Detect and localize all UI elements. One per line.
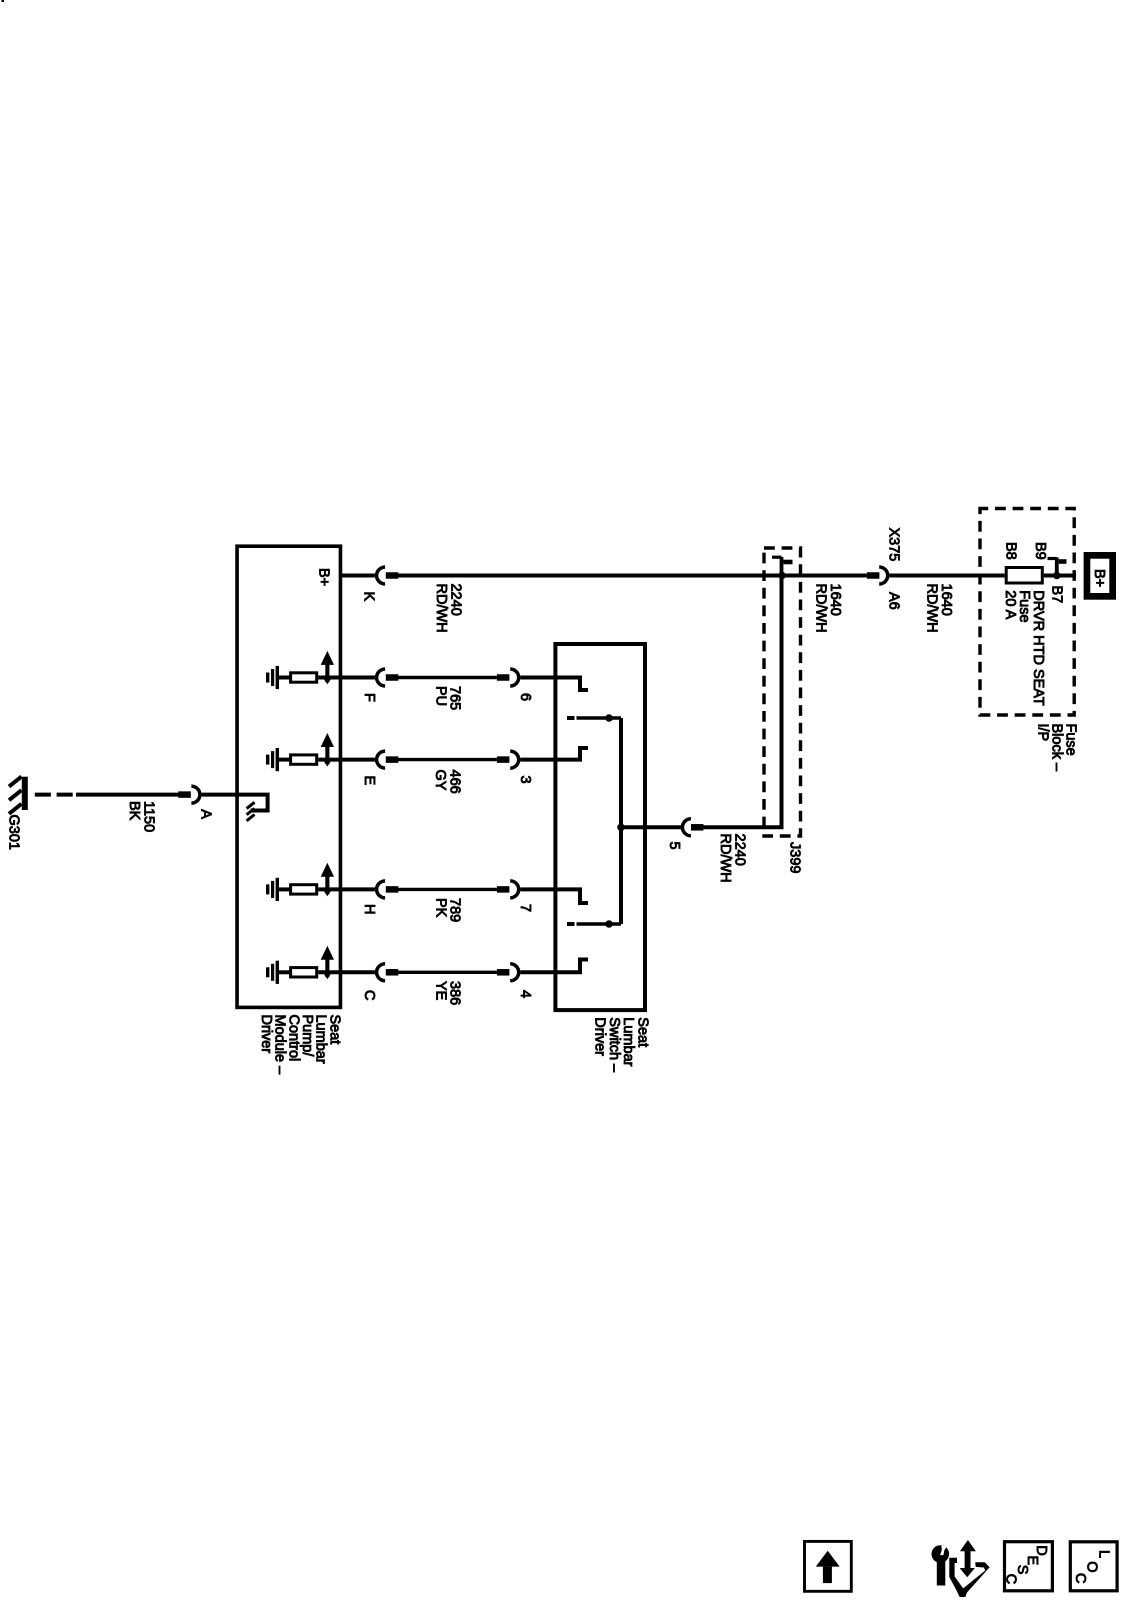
connector 4 male pin stub — [497, 969, 510, 976]
pump motor row H — [266, 863, 341, 901]
connector F male pin stub — [386, 674, 399, 681]
wire connector 7 to switch — [520, 887, 557, 891]
connector E female arc — [377, 751, 386, 768]
svg-text:6: 6 — [517, 693, 533, 701]
svg-text:BK: BK — [126, 801, 142, 821]
label E — [361, 776, 377, 786]
label K — [360, 592, 376, 602]
label 1640 RD/WH right of X375 — [924, 584, 955, 633]
connector C female arc — [377, 964, 386, 981]
switch pin 6 internal wire and contact — [557, 676, 588, 691]
connector 7 female arc — [510, 881, 519, 898]
connector 5 female arc — [682, 819, 691, 836]
footer icon: LOC box — [1070, 1542, 1117, 1591]
connector 5 male pin stub — [691, 824, 704, 831]
junction dot arm 1 — [605, 714, 613, 722]
wire 2240 RD/WH main feed to X375 — [398, 574, 867, 578]
wire row F module to connector — [342, 676, 375, 680]
wire 1150 BK dashed segment from G301 — [35, 793, 77, 797]
svg-text:3: 3 — [517, 776, 533, 784]
switch wiper arm 1 — [567, 716, 575, 720]
svg-text:X375: X375 — [886, 528, 902, 562]
svg-text:PK: PK — [433, 898, 449, 918]
junction dot pin 5 — [617, 824, 625, 832]
svg-text:L: L — [1096, 1550, 1112, 1558]
connector C male pin stub — [386, 969, 399, 976]
svg-text:K: K — [360, 592, 376, 602]
label A6 — [886, 592, 902, 610]
label 1640 RD/WH left of X375 — [813, 584, 844, 633]
footer icon: DESC box — [1003, 1542, 1053, 1591]
module internal ground hatches — [247, 802, 255, 821]
label 789 PK — [433, 898, 463, 922]
label 466 GY — [432, 770, 463, 794]
label Seat Lumbar Switch - Driver — [592, 1017, 651, 1073]
scan artifact top-left corner — [2, 0, 5, 2]
wire 2240 RD/WH to J399 — [703, 576, 782, 828]
label DRVR HTD SEAT Fuse 20 A — [1002, 590, 1046, 706]
Seat Lumbar Switch box — [555, 644, 645, 1010]
wire fuse to B+ terminal — [1044, 574, 1076, 578]
connector F female arc — [377, 669, 386, 686]
connector H male pin stub — [386, 886, 399, 893]
connector A female arc — [191, 786, 200, 803]
label B+ inside module — [315, 568, 331, 586]
connector H female arc — [377, 881, 386, 898]
switch pin 7 internal wire and contact — [557, 887, 588, 903]
switch pin 3 internal wire and contact — [557, 748, 588, 762]
label 386 YE — [433, 981, 463, 1005]
junction dot J399 — [778, 572, 786, 580]
svg-text:F: F — [361, 693, 377, 702]
wire 386 YE — [398, 971, 497, 974]
wire B+ module to connector K — [342, 574, 375, 578]
label Fuse Block - I/P — [1035, 724, 1079, 772]
label 2240 RD/WH — [433, 584, 464, 633]
footer icon: wrench with arrows (service) — [932, 1540, 990, 1597]
connector K female arc — [377, 567, 386, 584]
wire row H module to connector — [342, 887, 375, 891]
svg-text:GY: GY — [432, 770, 448, 791]
junction dot arm 2 — [605, 920, 613, 928]
svg-text:4: 4 — [517, 990, 533, 998]
connector 4 female arc — [510, 964, 519, 981]
label B+ terminal — [1091, 569, 1107, 587]
wire connector 6 to switch — [520, 676, 557, 680]
svg-text:E: E — [361, 776, 377, 786]
svg-text:PU: PU — [433, 686, 449, 706]
label C — [361, 990, 377, 1000]
connector 3 female arc — [510, 751, 519, 768]
wire row E module to connector — [342, 758, 375, 762]
svg-text:G301: G301 — [6, 815, 22, 850]
J399 splice dashed box — [764, 548, 801, 836]
wire connector 4 to switch — [520, 970, 557, 974]
svg-text:B7: B7 — [1049, 586, 1065, 604]
label Seat Lumbar Pump/Control Module - Driver — [258, 1015, 342, 1076]
pump motor row F — [266, 651, 341, 689]
svg-text:D: D — [1033, 1545, 1049, 1555]
svg-text:7: 7 — [517, 904, 533, 912]
switch pin 4 internal wire and contact — [557, 960, 588, 975]
svg-text:B+: B+ — [1091, 569, 1107, 587]
label A — [197, 809, 213, 819]
svg-text:Driver: Driver — [592, 1017, 608, 1056]
svg-text:I/P: I/P — [1035, 724, 1051, 742]
J399 splice terminal stub — [772, 557, 793, 573]
wire 466 GY — [398, 758, 497, 761]
switch wiper arm 2 — [567, 922, 575, 926]
connector 6 female arc — [510, 669, 519, 686]
svg-text:C: C — [361, 990, 377, 1000]
svg-text:RD/WH: RD/WH — [433, 584, 449, 633]
footer icon: up arrow box — [805, 1541, 852, 1591]
svg-text:O: O — [1084, 1561, 1100, 1572]
label G301 — [6, 815, 22, 850]
wire pin 5 out of switch — [621, 825, 681, 829]
wire pin A into module — [202, 795, 268, 811]
label 5 — [666, 842, 682, 850]
Seat Lumbar Pump/Control Module box — [237, 546, 340, 1007]
label 2240 RD/WH — [717, 834, 748, 883]
svg-text:H: H — [361, 904, 377, 914]
label 4 — [517, 990, 533, 998]
label F — [361, 693, 377, 702]
label 3 — [517, 776, 533, 784]
connector 6 male pin stub — [497, 674, 510, 681]
svg-text:RD/WH: RD/WH — [813, 584, 829, 633]
label B9 — [1032, 542, 1048, 560]
label 1150 BK — [126, 801, 157, 832]
connector A male pin stub — [178, 791, 191, 798]
pump motor row C — [266, 946, 341, 984]
svg-text:J399: J399 — [787, 842, 803, 873]
B9 terminal stub — [1048, 558, 1067, 574]
svg-text:YE: YE — [433, 981, 449, 1001]
switch common vertical wire — [619, 718, 623, 924]
svg-text:5: 5 — [666, 842, 682, 850]
svg-text:20 A: 20 A — [1002, 590, 1018, 619]
pump motor row E — [266, 733, 341, 771]
wire row C module to connector — [342, 970, 375, 974]
wire 765 PU — [398, 676, 497, 679]
label 6 — [517, 693, 533, 701]
svg-text:Driver: Driver — [258, 1015, 274, 1054]
label X375 — [886, 528, 902, 562]
svg-text:RD/WH: RD/WH — [924, 584, 940, 633]
svg-text:B9: B9 — [1032, 542, 1048, 560]
wire 1640 RD/WH to fuse block — [889, 574, 1004, 578]
svg-text:A: A — [197, 809, 213, 819]
label J399 — [787, 842, 803, 873]
wire 789 PK — [398, 888, 497, 891]
connector 7 male pin stub — [497, 886, 510, 893]
wire connector 3 to switch — [520, 758, 557, 762]
label 765 PU — [433, 686, 463, 710]
connector 3 male pin stub — [497, 756, 510, 763]
label 7 — [517, 904, 533, 912]
connector K male pin stub — [386, 572, 399, 579]
fuse DRVR HTD SEAT 20A — [1006, 568, 1042, 584]
svg-text:B+: B+ — [315, 568, 331, 586]
connector E male pin stub — [386, 756, 399, 763]
connector X375 male pin stub — [867, 572, 880, 579]
svg-text:C: C — [1072, 1573, 1088, 1583]
Fuse Block I/P dashed box — [980, 509, 1074, 716]
label B7 — [1049, 586, 1065, 604]
svg-text:C: C — [1003, 1574, 1019, 1584]
label H — [361, 904, 377, 914]
svg-text:B8: B8 — [1003, 542, 1019, 560]
connector X375 female arc — [879, 567, 888, 584]
svg-text:RD/WH: RD/WH — [717, 834, 733, 883]
label B8 — [1003, 542, 1019, 560]
junction dot B9 — [1053, 572, 1061, 580]
wire 1150 BK solid segment — [76, 793, 179, 797]
B+ terminal box — [1087, 555, 1113, 596]
ground G301 symbol — [9, 777, 28, 814]
svg-text:A6: A6 — [886, 592, 902, 610]
